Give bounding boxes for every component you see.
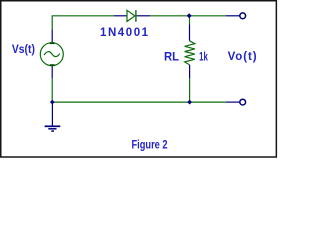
label 1k [199,51,208,64]
terminal Vo- (bottom right) [226,99,246,105]
label 1N4001 [100,27,150,39]
wire top-left from source to diode anode [52,16,114,30]
label RL [164,51,179,63]
junction bottom node [187,100,192,105]
label Vs(t) [12,44,35,57]
ground [45,102,61,131]
wire top junction to resistor lead [189,16,191,24]
diode 1N4001 [114,10,150,22]
svg-text:Vs(t): Vs(t) [12,44,35,57]
voltage source Vs [40,30,63,79]
label Figure 2 [132,139,168,152]
wire resistor bottom to bottom junction [189,78,191,101]
junction ground tee [50,100,55,105]
terminal Vo+ (top right) [226,13,246,19]
svg-text:1k: 1k [199,51,208,64]
svg-text:Vo(t): Vo(t) [228,51,258,63]
svg-text:RL: RL [164,51,179,63]
resistor RL [185,24,195,78]
wire top junction to output terminal [189,15,226,17]
wire bottom rail [52,101,226,103]
label Vo(t) [228,51,258,63]
wire diode cathode to top junction [150,15,189,17]
svg-text:1N4001: 1N4001 [100,27,150,39]
svg-text:Figure 2: Figure 2 [132,139,168,152]
junction top node [187,13,192,18]
wire source bottom to ground junction [51,78,53,101]
